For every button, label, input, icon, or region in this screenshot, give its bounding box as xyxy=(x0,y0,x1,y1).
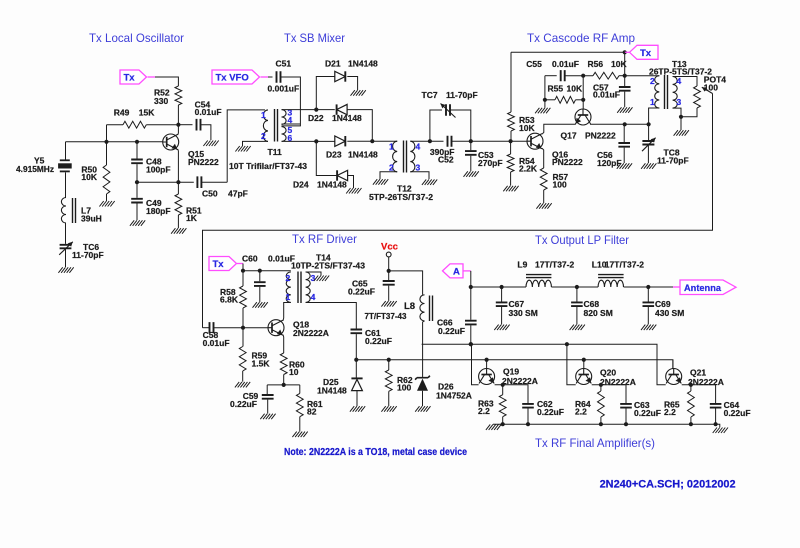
capacitor C65 xyxy=(383,281,395,285)
Vcc symbol xyxy=(386,252,391,257)
wire driver top line xyxy=(243,270,291,272)
svg-text:Tx SB Mixer: Tx SB Mixer xyxy=(284,31,345,45)
svg-text:100: 100 xyxy=(704,82,718,92)
svg-text:Tx RF Driver: Tx RF Driver xyxy=(292,232,357,246)
svg-text:2.2: 2.2 xyxy=(575,407,587,417)
node base line R50 xyxy=(104,140,108,144)
svg-text:3: 3 xyxy=(416,163,421,173)
svg-text:330: 330 xyxy=(154,96,168,106)
wire L7 to TC6 xyxy=(65,223,67,244)
svg-text:2N240+CA.SCH; 02012002: 2N240+CA.SCH; 02012002 xyxy=(600,479,736,491)
wire T11 pin3 line to diode ring xyxy=(282,109,335,111)
node collector of Q15 xyxy=(176,123,180,127)
port flag Antenna xyxy=(673,286,680,288)
ground R61 xyxy=(292,432,307,438)
capacitor C55 xyxy=(545,75,557,77)
wire C50 to T11 pin1 xyxy=(227,110,265,182)
node R58 top xyxy=(241,269,245,273)
node C48 top xyxy=(135,140,139,144)
wire POT4 bottom to ground node xyxy=(681,108,697,130)
node C60 xyxy=(258,269,262,273)
ground C53 xyxy=(464,171,479,177)
wire flag stub xyxy=(148,76,156,78)
POT4 wiper arrow xyxy=(702,87,713,93)
svg-text:3: 3 xyxy=(311,273,316,283)
svg-text:R49: R49 xyxy=(114,107,130,117)
node C61 bottom / base line start xyxy=(354,358,358,362)
port flag Tx (cascode supply) xyxy=(630,45,659,59)
svg-text:120pF: 120pF xyxy=(597,158,622,168)
capacitor C50 xyxy=(197,176,201,188)
wire D26 to ground xyxy=(422,391,424,406)
crystal Y5 xyxy=(65,142,67,160)
resistor R54 xyxy=(510,141,512,154)
wire C55 left to R55 and ground xyxy=(544,76,546,108)
wire L9 to L10 xyxy=(551,286,598,288)
wire emitter line xyxy=(137,181,194,183)
svg-text:430 SM: 430 SM xyxy=(655,308,684,318)
wire Vcc node to L8 xyxy=(389,271,423,295)
capacitor C62 xyxy=(522,404,534,408)
svg-text:270pF: 270pF xyxy=(478,158,503,168)
svg-text:D22: D22 xyxy=(308,113,324,123)
ground C69 xyxy=(641,325,656,331)
node Tx flag tap xyxy=(623,50,627,54)
svg-text:C51: C51 xyxy=(276,59,292,69)
svg-text:Tx RF Final Amplifier(s): Tx RF Final Amplifier(s) xyxy=(535,436,655,450)
svg-text:0.01uF: 0.01uF xyxy=(552,59,579,69)
diode D22 xyxy=(337,104,348,114)
svg-text:2.2K: 2.2K xyxy=(519,163,538,173)
diode D25 (vertical, cathode up) xyxy=(351,377,362,379)
wire A flag to filter xyxy=(463,270,471,272)
inductor L7 xyxy=(61,198,66,224)
diode D24 xyxy=(337,170,348,180)
svg-text:4: 4 xyxy=(288,115,293,125)
svg-text:2: 2 xyxy=(261,131,266,141)
node C66 bottom collector line xyxy=(469,342,473,346)
svg-text:1: 1 xyxy=(286,292,291,302)
svg-text:0.22uF: 0.22uF xyxy=(634,408,661,418)
svg-text:100: 100 xyxy=(397,382,411,392)
ground TC8 xyxy=(641,163,656,169)
resistor R50 xyxy=(106,142,108,165)
wire flag to C60 node xyxy=(237,263,243,265)
T11 core xyxy=(275,109,278,142)
svg-text:T11: T11 xyxy=(268,147,282,157)
transistor Q18 xyxy=(268,320,284,336)
ground C54 xyxy=(203,141,218,147)
svg-text:1N4752A: 1N4752A xyxy=(436,390,472,400)
node D21 branch xyxy=(314,108,318,112)
ground R57 xyxy=(536,203,551,209)
T12 core xyxy=(404,141,407,173)
transformer T11 secondary winding 5-6 xyxy=(282,127,287,142)
transistor Q17 xyxy=(575,109,591,125)
capacitor C63 xyxy=(620,404,632,408)
ground C49 xyxy=(130,220,145,226)
wire Q21 base xyxy=(672,360,674,369)
svg-text:4.915MHz: 4.915MHz xyxy=(16,164,54,174)
node T13 pin3 ground xyxy=(679,115,683,119)
potentiometer POT4 xyxy=(694,86,701,108)
capacitor C53 xyxy=(470,141,472,150)
node Q20 collector tap xyxy=(565,342,569,346)
transistor Q21 xyxy=(666,369,682,385)
node Q19 base xyxy=(485,358,489,362)
wire Q20 collector xyxy=(567,344,576,385)
node ground taps xyxy=(501,422,505,426)
svg-text:820 SM: 820 SM xyxy=(584,308,613,318)
wire top supply rail xyxy=(511,51,625,53)
svg-text:C60: C60 xyxy=(242,253,258,263)
wire TC6 to ground xyxy=(65,249,67,267)
svg-text:R56: R56 xyxy=(588,59,604,69)
svg-text:1N4148: 1N4148 xyxy=(317,385,347,395)
ground bus left xyxy=(486,424,501,430)
wire to TC8 xyxy=(648,124,650,140)
wire Q16 collector to Q17 emitter xyxy=(542,124,576,134)
node C55 right / R56 left xyxy=(581,74,585,78)
wire LP filter line xyxy=(471,286,526,288)
resistor R51 xyxy=(177,182,179,194)
wire node right to T13 pin2 xyxy=(625,75,660,77)
svg-text:26TP-5TS/T37-2: 26TP-5TS/T37-2 xyxy=(649,67,712,77)
capacitor C52 xyxy=(448,136,452,147)
node C68 xyxy=(575,285,579,289)
wire filter input down xyxy=(470,271,472,320)
trimmer capacitor TC7 xyxy=(446,104,450,116)
svg-text:A: A xyxy=(453,266,460,277)
svg-text:Note: 2N2222A is a TO18, meta: Note: 2N2222A is a TO18, metal case devi… xyxy=(284,447,467,458)
wire TC7 left leg xyxy=(430,110,442,141)
svg-text:1.5K: 1.5K xyxy=(252,358,271,368)
transformer T11 primary xyxy=(263,110,268,141)
capacitor C49 xyxy=(136,182,138,198)
svg-text:2: 2 xyxy=(650,76,655,86)
wire D22 anode down to carrier line xyxy=(347,110,372,142)
wire T14 pin3 to ground xyxy=(306,272,321,276)
node filter line xyxy=(469,285,473,289)
svg-text:39uH: 39uH xyxy=(81,213,102,223)
svg-text:PN2222: PN2222 xyxy=(188,157,219,167)
ground R50 xyxy=(99,201,114,207)
node Q18 base xyxy=(241,326,245,330)
wire D25 branch xyxy=(355,360,357,378)
wire Q18 emitter to R60 xyxy=(282,335,285,353)
ground R62 xyxy=(381,406,396,412)
wire node down to Q17 base xyxy=(565,75,593,77)
wire C58 to base node xyxy=(214,327,269,329)
svg-text:Vcc: Vcc xyxy=(381,242,398,253)
ground C57 xyxy=(617,107,632,113)
svg-text:0.22uF: 0.22uF xyxy=(348,287,375,297)
svg-text:0.01uF: 0.01uF xyxy=(195,107,222,117)
node R56-C57-T13 xyxy=(623,74,627,78)
transformer T13 secondary xyxy=(673,77,678,109)
diode D21 xyxy=(335,71,346,81)
svg-text:10K: 10K xyxy=(567,83,583,93)
inductor L10 xyxy=(598,280,623,287)
transformer T14 primary xyxy=(286,272,291,302)
wire node up to supply rail xyxy=(624,52,626,86)
transistor Q16 xyxy=(527,133,543,149)
svg-text:4: 4 xyxy=(677,76,682,86)
port flag Tx (driver input) xyxy=(209,257,237,271)
trimmer capacitor TC6 xyxy=(60,245,72,249)
svg-text:2: 2 xyxy=(286,273,291,283)
wire T12 pin3 to ground xyxy=(410,172,429,179)
svg-text:PN2222: PN2222 xyxy=(585,131,616,141)
svg-text:2: 2 xyxy=(389,163,394,173)
resistor R56 xyxy=(593,72,619,79)
svg-text:0.22uF: 0.22uF xyxy=(230,399,257,409)
svg-text:1K: 1K xyxy=(186,213,198,223)
transistor Q19 xyxy=(479,369,495,385)
resistor R57 xyxy=(540,168,547,190)
svg-text:C50: C50 xyxy=(202,188,218,198)
wire Q20 base xyxy=(583,360,585,369)
node R65 xyxy=(689,383,693,387)
svg-text:D24: D24 xyxy=(293,180,309,190)
wire Q19 base xyxy=(486,360,488,369)
node emitter line left xyxy=(135,180,139,184)
ground R59 xyxy=(235,382,250,388)
ground T11 pin2 xyxy=(235,146,250,152)
svg-text:6.8K: 6.8K xyxy=(220,295,239,305)
wire C52 to node xyxy=(452,140,511,142)
resistor R61 xyxy=(299,385,301,394)
svg-text:330 SM: 330 SM xyxy=(509,308,538,318)
capacitor C60 xyxy=(259,271,261,282)
wire T13 pin3 down xyxy=(673,108,681,117)
node Q19 collector tap xyxy=(469,342,473,346)
wire R52 to collector node xyxy=(177,105,179,125)
ground D24 xyxy=(346,188,361,194)
resistor R62 xyxy=(388,360,390,370)
wire Y5 to L7 xyxy=(65,172,67,197)
svg-text:1N4148: 1N4148 xyxy=(317,180,347,190)
trimmer capacitor TC8 xyxy=(642,141,654,145)
transformer T11 secondary winding 3-4 xyxy=(282,110,287,125)
svg-text:180pF: 180pF xyxy=(146,206,171,216)
inductor L9 xyxy=(526,280,551,287)
svg-text:Tx: Tx xyxy=(640,48,652,59)
capacitor C58 xyxy=(203,327,210,329)
ground T14 pin3 xyxy=(314,276,329,282)
svg-text:0.22uF: 0.22uF xyxy=(438,326,465,336)
svg-text:10: 10 xyxy=(289,367,299,377)
wire R56 right to node xyxy=(619,75,625,77)
wire final amp base line xyxy=(356,360,673,369)
port flag Tx (oscillator output) xyxy=(120,70,147,84)
ground C68 xyxy=(570,325,585,331)
inductor L8 xyxy=(420,295,425,321)
svg-text:10K: 10K xyxy=(81,172,97,182)
ground T13 pin3 xyxy=(674,130,689,136)
capacitor C48 xyxy=(136,142,138,159)
ground C56 xyxy=(617,163,632,169)
node R64 xyxy=(599,383,603,387)
wire flag stub xyxy=(625,51,630,53)
wire flag to C51 xyxy=(261,76,269,78)
svg-text:C52: C52 xyxy=(438,155,454,165)
svg-text:7T/FT37-43: 7T/FT37-43 xyxy=(365,311,407,321)
svg-text:0.001uF: 0.001uF xyxy=(268,84,300,94)
wire T12 pin4 output line xyxy=(410,140,443,142)
node C69 xyxy=(646,285,650,289)
svg-text:15K: 15K xyxy=(139,107,155,117)
wire Q17 collector line xyxy=(590,123,649,125)
capacitor C64 xyxy=(710,404,722,408)
resistor R64 xyxy=(600,385,602,391)
ground C59 xyxy=(260,414,275,420)
svg-text:1: 1 xyxy=(261,110,266,120)
svg-text:11-70pF: 11-70pF xyxy=(72,250,104,260)
svg-text:C55: C55 xyxy=(526,59,542,69)
ground R55 C55 xyxy=(535,108,550,114)
svg-text:2.2: 2.2 xyxy=(478,406,490,416)
svg-text:47pF: 47pF xyxy=(228,188,248,198)
svg-text:Tx Local Oscillator: Tx Local Oscillator xyxy=(89,31,184,45)
capacitor C61 xyxy=(351,330,363,334)
resistor R49 15K xyxy=(107,124,124,126)
wire T13 pin1 xyxy=(649,108,660,124)
svg-text:4: 4 xyxy=(416,142,421,152)
svg-text:0.01uF: 0.01uF xyxy=(593,90,620,100)
ground T12 pin2 xyxy=(373,179,388,185)
svg-text:Q17: Q17 xyxy=(561,131,577,141)
resistor R53 xyxy=(510,52,512,112)
wire D21 cathode to ground xyxy=(347,77,357,91)
transformer T12 secondary xyxy=(410,141,415,172)
wire to D21 xyxy=(316,77,335,110)
wire Q19 emitter line xyxy=(495,385,528,403)
svg-text:5TP-26TS/T37-2: 5TP-26TS/T37-2 xyxy=(369,192,433,202)
wire T13 pin4 to POT4 xyxy=(673,77,697,87)
wire Q16 emitter to R57 xyxy=(542,148,544,168)
capacitor C57 xyxy=(619,87,631,91)
capacitor C59 xyxy=(266,385,268,394)
transistor Q20 xyxy=(576,369,592,385)
capacitor C66 xyxy=(465,321,477,325)
svg-text:L9: L9 xyxy=(517,260,527,270)
svg-text:0.22uF: 0.22uF xyxy=(365,336,392,346)
node Q20 base xyxy=(582,358,586,362)
svg-text:10T Trifilar/FT37-43: 10T Trifilar/FT37-43 xyxy=(229,161,307,171)
svg-text:0.22uF: 0.22uF xyxy=(724,408,751,418)
zener diode D26 1N4752A xyxy=(422,344,424,378)
node D24 branch xyxy=(314,139,318,143)
T13 core xyxy=(665,75,668,109)
wire to D24 xyxy=(316,141,337,175)
svg-text:0.01uF: 0.01uF xyxy=(203,338,230,348)
node R62 xyxy=(387,358,391,362)
svg-text:100pF: 100pF xyxy=(146,165,171,175)
svg-text:10TP-2TS/FT37-43: 10TP-2TS/FT37-43 xyxy=(291,260,365,270)
node R63 xyxy=(501,383,505,387)
svg-text:11-70pF: 11-70pF xyxy=(657,155,689,165)
ground C67 xyxy=(494,325,509,331)
wire Q15 collector xyxy=(177,125,180,135)
wire Vcc down xyxy=(388,257,390,280)
wire Q15 emitter xyxy=(177,149,180,182)
transformer T13 primary xyxy=(655,76,660,108)
svg-text:Q19: Q19 xyxy=(503,367,519,377)
svg-text:TC7: TC7 xyxy=(422,90,438,100)
node R60 bottom xyxy=(282,383,286,387)
transformer T12 primary xyxy=(393,141,398,172)
node Q15 emitter xyxy=(176,180,180,184)
svg-text:4: 4 xyxy=(311,292,316,302)
capacitor C67 xyxy=(501,287,503,302)
svg-text:Tx VFO: Tx VFO xyxy=(216,73,249,84)
diode D23 xyxy=(335,136,346,146)
wire Q18 collector to T14 pin1 xyxy=(283,303,291,321)
resistor R55 xyxy=(545,99,555,101)
node D22 junction xyxy=(370,139,374,143)
ground C60 xyxy=(253,302,268,308)
svg-text:PN2222: PN2222 xyxy=(552,157,583,167)
wire POT4 wiper to driver input xyxy=(203,94,713,328)
ground C65 xyxy=(381,301,396,307)
wire L10 to antenna xyxy=(624,286,673,288)
node TC7 left xyxy=(428,139,432,143)
T14 core xyxy=(298,272,301,304)
node C67 xyxy=(500,285,504,289)
capacitor C54 xyxy=(178,124,192,126)
node TC8 T13 pin1 xyxy=(647,122,651,126)
svg-text:3: 3 xyxy=(677,97,682,107)
port flag Tx VFO xyxy=(212,70,260,84)
capacitor C51 xyxy=(277,71,281,83)
ground D25 xyxy=(350,406,365,412)
wire T11 pin2 to ground xyxy=(243,141,269,146)
wire Q21 emitter line xyxy=(682,385,716,403)
wire TC8 to ground xyxy=(647,146,649,164)
svg-text:R55: R55 xyxy=(548,83,564,93)
svg-text:2.2: 2.2 xyxy=(664,407,676,417)
svg-text:17T/T37-2: 17T/T37-2 xyxy=(535,260,574,270)
capacitor C68 xyxy=(576,287,578,302)
svg-text:1: 1 xyxy=(389,142,394,152)
wire collector line xyxy=(422,344,666,385)
svg-text:Tx Cascode RF Amp: Tx Cascode RF Amp xyxy=(527,31,635,45)
ground D21 xyxy=(351,90,366,96)
svg-text:Tx Output LP Filter: Tx Output LP Filter xyxy=(535,233,629,247)
node R53 R54 xyxy=(509,139,513,143)
wire D24 anode to ground xyxy=(348,176,354,189)
wire emitter ground bus xyxy=(493,424,720,427)
svg-text:17T/T37-2: 17T/T37-2 xyxy=(605,260,644,270)
resistor R58 xyxy=(242,271,244,286)
wire R49 down to base line xyxy=(106,125,108,142)
wire node to Q16 base xyxy=(511,140,527,142)
wire C51 to T11 centre tap xyxy=(281,77,301,126)
node C53 xyxy=(469,139,473,143)
svg-text:Tx: Tx xyxy=(124,73,136,84)
wire T12 pin2 to ground xyxy=(380,172,397,179)
ground D26 xyxy=(415,406,430,412)
capacitor C69 xyxy=(647,287,649,302)
svg-text:D23: D23 xyxy=(326,150,342,160)
resistor R60 xyxy=(280,353,287,375)
wire emitter degeneration node xyxy=(267,384,300,386)
wire flag to R52 xyxy=(155,77,178,86)
svg-text:1N4148: 1N4148 xyxy=(348,150,378,160)
ground bus right xyxy=(713,428,728,434)
wire oscillator base line xyxy=(66,141,163,143)
